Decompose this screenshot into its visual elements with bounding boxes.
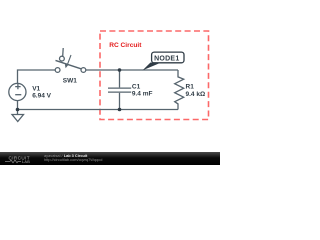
wire top-left from V1 to switch	[18, 70, 56, 84]
NODE1 flag pointer	[143, 63, 161, 71]
node junction dot at V1 bottom	[16, 108, 20, 112]
junction dot C1 top	[118, 68, 122, 72]
wire bottom	[18, 101, 179, 110]
svg-text:RC Circuit: RC Circuit	[109, 42, 142, 49]
svg-text:http://circuitlab.com/cqvrq7Wq: http://circuitlab.com/cqvrq7Wqqcd	[44, 157, 102, 162]
svg-text:6.94 V: 6.94 V	[32, 92, 51, 99]
svg-text:NODE1: NODE1	[154, 55, 179, 62]
svg-text:R1: R1	[186, 84, 195, 91]
switch terminal circles	[55, 68, 60, 73]
switch blade	[56, 60, 82, 69]
wire top from switch to R1	[86, 69, 178, 71]
CircuitLab logo	[5, 155, 30, 164]
capacitor C1	[108, 70, 131, 110]
resistor R1	[175, 70, 184, 110]
svg-text:SW1: SW1	[63, 78, 77, 85]
switch top stub	[62, 48, 65, 56]
junction dot C1 bottom	[118, 108, 122, 112]
ground	[12, 110, 24, 122]
NODE1 flag box	[152, 52, 184, 63]
svg-text:LAB: LAB	[22, 160, 30, 164]
svg-text:9.4 mF: 9.4 mF	[132, 91, 153, 98]
svg-text:C1: C1	[132, 84, 141, 91]
switch arrow	[67, 55, 71, 65]
RC Circuit dashed box	[100, 31, 209, 120]
svg-text:9.4 kΩ: 9.4 kΩ	[186, 91, 206, 98]
switch SW1	[55, 48, 86, 72]
voltage source V1	[9, 83, 26, 100]
